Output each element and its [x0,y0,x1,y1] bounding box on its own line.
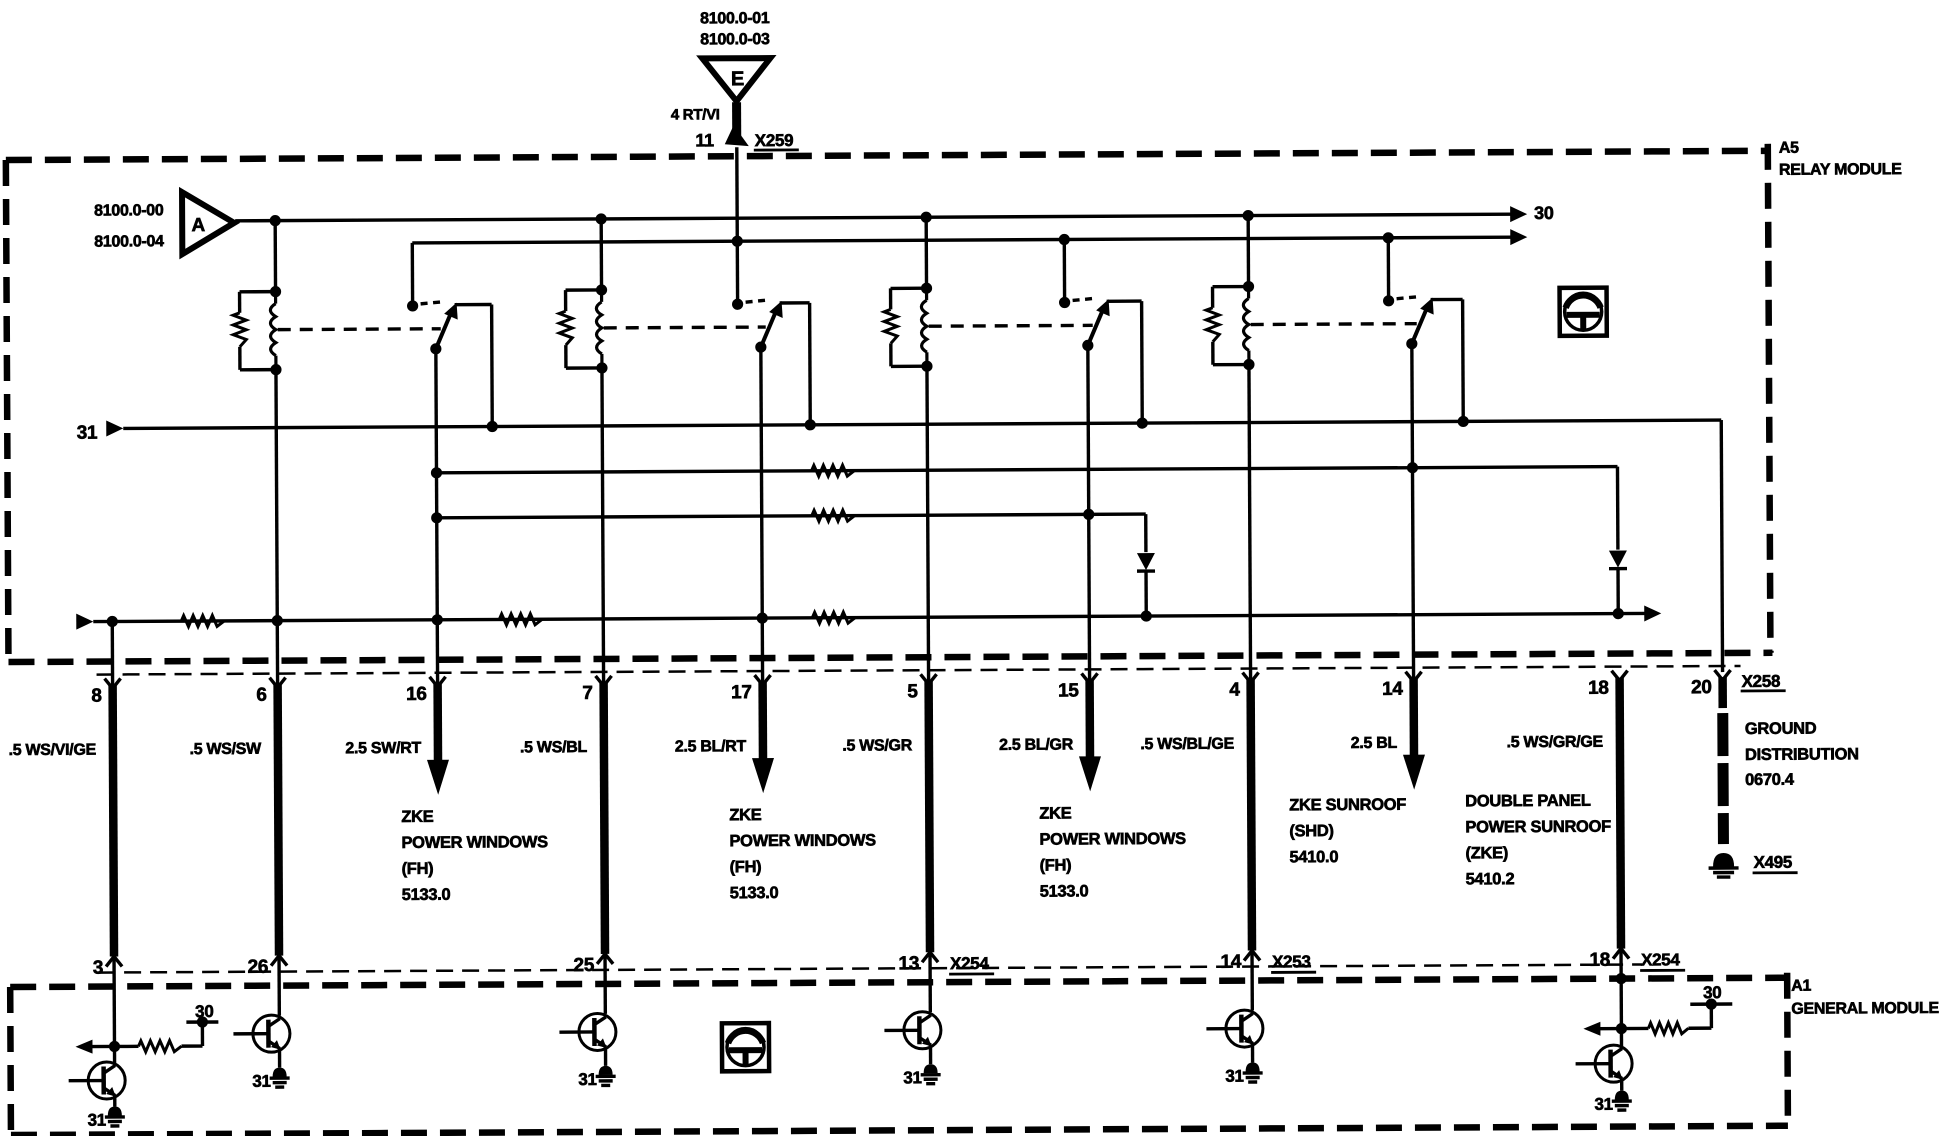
label pin 18 [1588,678,1609,699]
svg-text:2.5 SW/RT: 2.5 SW/RT [345,740,421,757]
relay switch S4 [1383,295,1465,680]
transistor T5 [1206,1010,1263,1047]
label GROUND [1745,720,1817,738]
connector pin 25 (A1, fork symbol) [597,954,613,964]
resistor R-A on line A [811,465,854,476]
svg-text:0670.4: 0670.4 [1745,771,1795,789]
svg-text:DOUBLE PANEL: DOUBLE PANEL [1465,792,1591,811]
harness wire at x=603 (to general module) [604,683,605,954]
ground X495 [1709,853,1739,877]
stub feed bus to switch S4 contact [1387,238,1391,301]
general module A1 dashed border [10,973,1788,1135]
label connector X253 [1271,952,1316,972]
svg-text:.5 WS/SW: .5 WS/SW [190,741,263,758]
ground 31 (T5) [1243,1062,1263,1082]
svg-text:GENERAL MODULE: GENERAL MODULE [1791,1000,1939,1018]
harness wire stub with arrow at x=1413 [1403,679,1426,790]
junction bus31/S1 output [487,421,498,432]
svg-text:POWER WINDOWS: POWER WINDOWS [401,833,548,852]
svg-text:(ZKE): (ZKE) [1465,844,1508,862]
svg-text:30: 30 [1703,983,1721,1002]
svg-text:2.5 BL/RT: 2.5 BL/RT [675,738,747,755]
connector pin 14 (A5, fork symbol) [1406,672,1422,682]
dashed actuation link relay K1 to switch S1 [278,327,441,331]
wire line A drop to diode D2 [1616,467,1620,550]
label wire gauge 2.5 SW/RT [345,740,421,757]
connector pin 7 (A5, fork symbol) [596,676,612,686]
svg-text:31: 31 [903,1068,921,1087]
svg-text:RELAY MODULE: RELAY MODULE [1779,161,1902,179]
svg-text:3: 3 [93,958,103,979]
rail 30 stub (T6) [1690,998,1732,1009]
junction bus31/S4 output [1458,416,1469,427]
junction bus30/relay K3 [921,212,932,223]
label pin 8 [91,686,101,707]
svg-text:E: E [731,68,744,90]
label wire gauge 2.5 BL/GR [999,736,1074,753]
wire feed bus from X259 [412,237,1511,243]
label connector X254 [1640,950,1685,970]
junction bus31/S3 output [1137,417,1148,428]
svg-text:8100.0-03: 8100.0-03 [700,31,770,48]
svg-text:14: 14 [1220,952,1241,973]
svg-text:X259: X259 [755,131,794,150]
connector pin 17 (A5, fork symbol) [755,675,771,685]
svg-text:X495: X495 [1754,853,1793,872]
label destination ZKE sunroof (pin 14) [1289,796,1406,867]
svg-text:.5 WS/GR/GE: .5 WS/GR/GE [1507,734,1604,752]
arrow (signal out, pin3 node) [75,1039,114,1053]
connector strip X (relay module, thin dashed) [97,666,1741,675]
svg-text:25: 25 [573,955,594,976]
label 0670.4 [1745,771,1795,789]
transistor T3 [559,1013,616,1050]
wire to 30 rail stub (T1) [201,1022,205,1046]
label connector X254 [949,954,994,974]
label pin 3 (A1) [93,958,103,979]
wire bus 31 [123,420,1721,428]
svg-text:5: 5 [907,681,918,702]
label pin 4 [1229,680,1240,701]
junction line C / S1 wire [432,614,443,625]
svg-text:.5 WS/GR: .5 WS/GR [842,737,912,754]
label pin 26 (A1) [247,957,268,978]
svg-text:4 RT/VI: 4 RT/VI [671,106,720,123]
label pin 5 [907,681,918,702]
connector pin 8 (A5, fork symbol) [105,678,121,688]
connector pin 3 (A1, fork symbol) [106,956,122,966]
connector pin 5 (A5, fork symbol) [921,674,937,684]
wire pin3 to transistor T1 [113,1046,116,1065]
diode D1 [1137,553,1155,616]
relay switch S2 [732,298,812,683]
label 30 (T1) [195,1002,213,1021]
connector pin 15 (A5, fork symbol) [1082,673,1098,683]
label pin 6 [256,685,266,706]
stub feed bus to switch S1 contact [411,243,415,306]
junction pin18 at module border [1616,973,1627,984]
wire to 30 rail stub (T6) [1710,1004,1714,1028]
label pin 13 (A1) [898,953,919,974]
label X495 [1753,853,1798,873]
label 30 (T6) [1703,983,1721,1002]
svg-text:.5 WS/VI/GE: .5 WS/VI/GE [9,742,97,759]
resistor R-C1 on line C [181,615,224,626]
svg-text:X254: X254 [1641,950,1680,969]
svg-text:.5 WS/BL: .5 WS/BL [520,739,588,756]
label wire gauge .5 WS/GR [842,737,912,754]
label 31 (T4) [903,1068,921,1087]
svg-text:5133.0: 5133.0 [1040,882,1089,900]
arrow line C (left end) [76,614,93,630]
svg-text:31: 31 [77,423,98,444]
transistor T6 [1576,1045,1633,1082]
svg-text:18: 18 [1589,950,1610,971]
label A1 [1791,978,1811,995]
label pin 7 [582,683,592,704]
label pin 20 [1691,677,1712,698]
wire pin 25 into general module [603,956,607,1014]
label wire gauge .5 WS/VI/GE [9,742,97,759]
wire bus 30 [275,214,1511,220]
svg-text:11: 11 [695,130,714,150]
label wire gauge .5 WS/SW [190,741,263,758]
label wire gauge .5 WS/GR/GE [1507,734,1604,752]
svg-text:8: 8 [91,686,101,707]
connector pin 16 (A5, fork symbol) [430,677,446,687]
arrow terminal 31 (line start) [106,420,123,436]
connector pin 26 (A1, fork symbol) [271,956,287,966]
svg-text:5133.0: 5133.0 [730,884,779,902]
junction feed bus / S3 stub [1059,234,1070,245]
label RELAY MODULE [1779,161,1902,179]
harness wire pin 20 (dashed, ground distribution) [1718,677,1727,844]
wire T5 emitter to ground [1251,1044,1254,1063]
transistor T1 [69,1062,126,1099]
junction feed bus / X259 wire [732,236,743,247]
svg-text:13: 13 [898,953,919,974]
svg-text:31: 31 [252,1072,270,1091]
svg-text:6: 6 [256,685,266,706]
label pin 11 [695,130,714,150]
svg-text:A5: A5 [1779,140,1799,157]
svg-text:ZKE: ZKE [401,808,433,826]
thick wire 4 RT/VI below triangle E [732,102,741,141]
wire T2 emitter to ground [278,1049,281,1068]
svg-text:8100.0-04: 8100.0-04 [94,233,164,250]
ground 31 (T2) [270,1068,290,1088]
svg-text:(FH): (FH) [1040,856,1072,874]
svg-text:20: 20 [1691,677,1712,698]
wire line B [437,514,1146,518]
svg-text:15: 15 [1058,680,1079,701]
svg-text:POWER SUNROOF: POWER SUNROOF [1465,818,1611,837]
svg-text:A1: A1 [1791,978,1811,995]
svg-text:(SHD): (SHD) [1289,822,1333,840]
wire pin 14 into general module [1250,953,1254,1011]
label wire gauge .5 WS/BL [520,739,588,756]
svg-text:5410.2: 5410.2 [1466,870,1515,888]
label pin 16 [406,684,427,705]
junction line B start at S1 wire [431,512,442,523]
svg-text:31: 31 [578,1070,596,1089]
ground 31 (T3) [596,1066,616,1086]
harness wire at x=1250 (to general module) [1251,680,1252,951]
wire pin 8 drop [111,621,115,686]
label A5 [1779,140,1799,157]
svg-text:ZKE: ZKE [1039,804,1071,822]
label 31 (bus) [77,423,98,444]
steering-wheel icon (general module) [722,1023,769,1071]
label GENERAL MODULE [1791,1000,1939,1018]
harness wire at x=928 (to general module) [929,681,930,952]
label DISTRIBUTION [1745,745,1859,764]
svg-text:31: 31 [88,1111,106,1130]
label 30 (bus) [1534,203,1554,223]
arrow terminal 30 [1510,206,1527,222]
wire line A [436,467,1617,473]
svg-text:X254: X254 [950,954,989,973]
harness wire pin 18 to general module [1620,678,1621,949]
diode D2 [1609,551,1627,614]
wire line C [93,613,1645,621]
connector strip (general module, thin dashed) [98,964,1642,972]
harness wire stub with arrow at x=437 [427,684,450,795]
resistor R-C3 on line C [812,612,855,623]
junction line C / pin8 drop [107,616,118,627]
connector pin 6 (A5, fork symbol) [270,678,286,688]
relay K2 (coil with parallel resistor) [559,219,610,684]
junction line A start at S1 wire [431,467,442,478]
junction bus30/relay K1 [270,215,281,226]
junction bus31/S2 output [805,419,816,430]
transistor T4 [884,1012,941,1049]
wire from triangle A to bus 30 [235,219,275,223]
wire T1 emitter to ground [113,1095,116,1106]
harness wire stub with arrow at x=1089 [1079,680,1102,791]
wire bus 31 drop to pin 20 [1721,420,1722,672]
svg-text:18: 18 [1588,678,1609,699]
svg-text:A: A [191,215,205,236]
junction line C / pin18 wire [1613,608,1624,619]
arrow line C (right end) [1644,605,1661,621]
junction bus30/relay K4 [1243,210,1254,221]
svg-text:31: 31 [1225,1067,1243,1086]
harness wire at x=277 (to general module) [278,685,279,956]
relay K3 (coil with parallel resistor) [884,217,935,682]
connector pin 4 (A5, fork symbol) [1243,672,1259,682]
svg-text:DISTRIBUTION: DISTRIBUTION [1745,745,1859,764]
label destination ZKE power windows (pin 15) [1039,804,1186,901]
stub feed bus to switch S3 contact [1063,240,1067,303]
label pin 17 [731,682,752,703]
svg-text:ZKE: ZKE [729,806,761,824]
label 31 (T3) [578,1070,596,1089]
junction line A / S4 wire [1407,462,1418,473]
connector X259 arrow [725,125,749,146]
label 4 RT/VI [671,106,720,123]
junction line C / S2 wire [757,612,768,623]
svg-text:14: 14 [1382,679,1403,700]
dashed actuation link relay K4 to switch S4 [1251,322,1417,326]
dashed actuation link relay K3 to switch S3 [929,324,1093,328]
svg-text:ZKE SUNROOF: ZKE SUNROOF [1289,796,1406,815]
label X258 [1741,672,1786,691]
junction line C / diode D1 [1141,610,1152,621]
arrow feed bus end [1510,229,1527,245]
svg-text:(FH): (FH) [402,860,434,878]
label 31 (T2) [252,1072,270,1091]
svg-text:(FH): (FH) [730,858,762,876]
power source triangle E [702,58,770,101]
label wire gauge .5 WS/BL/GE [1140,736,1234,753]
steering-wheel icon (relay module) [1560,288,1607,336]
connector pin 14 (A1, fork symbol) [1244,950,1260,960]
relay switch S3 [1059,296,1144,681]
svg-text:26: 26 [247,957,268,978]
harness wire at x=112 (to general module) [113,685,114,956]
wire pin 3 into general module [112,958,116,1046]
svg-text:X258: X258 [1742,672,1781,691]
label 31 (T6) [1594,1095,1612,1114]
connector pin 13 (A1, fork symbol) [922,952,938,962]
label pin 18 (A1) [1589,950,1610,971]
svg-text:8100.0-01: 8100.0-01 [700,10,770,27]
label X259 [754,131,799,150]
rail 30 stub (T1) [186,1016,218,1027]
label pin 25 (A1) [573,955,594,976]
svg-text:2.5 BL: 2.5 BL [1351,735,1398,752]
connector pin 20 (A5, fork symbol) [1715,670,1731,680]
label pin 15 [1058,680,1079,701]
svg-text:4: 4 [1229,680,1240,701]
junction pin18 node [1616,1023,1627,1034]
label destination ZKE power windows (pin 17) [729,805,876,902]
wire T6 emitter to ground [1620,1079,1623,1091]
junction feed bus / S4 stub [1383,232,1394,243]
wire pin 18 into general module [1619,951,1623,979]
connector pin 18 (A5, fork symbol) [1612,671,1628,681]
svg-text:POWER WINDOWS: POWER WINDOWS [729,831,876,850]
wire T4 emitter to ground [929,1045,932,1064]
wire line B drop to diode D1 [1144,514,1148,552]
wire pin 26 into general module [277,958,281,1016]
svg-text:30: 30 [195,1002,213,1021]
junction bus30/relay K2 [596,213,607,224]
label 8100.0-00 [94,202,164,219]
dashed actuation link relay K2 to switch S2 [604,325,766,329]
label pin 14 (A1) [1220,952,1241,973]
relay K4 (coil with parallel resistor) [1206,216,1257,681]
label destination double panel power sunroof [1465,792,1611,889]
resistor R-C2 on line C [499,614,542,625]
svg-text:7: 7 [582,683,592,704]
resistor R-B on line B [812,510,855,521]
label wire gauge 2.5 BL [1351,735,1398,752]
svg-text:.5 WS/BL/GE: .5 WS/BL/GE [1140,736,1234,753]
relay K1 (coil with parallel resistor) [233,221,284,686]
label 8100.0-01 [700,10,770,27]
label wire gauge 2.5 BL/RT [675,738,747,755]
svg-text:5410.0: 5410.0 [1289,848,1338,866]
resistor R-T1 [114,1041,202,1052]
relay switch S1 [407,300,494,685]
relay module A5 dashed border [6,144,1773,662]
harness wire stub with arrow at x=762 [752,682,775,793]
label destination ZKE power windows (pin 16) [401,807,548,904]
junction pin3 node [109,1041,120,1052]
ground 31 (T1) [105,1106,125,1126]
wire X259 to switch S2 contact [735,147,739,304]
svg-text:2.5 BL/GR: 2.5 BL/GR [999,736,1074,753]
label 31 (T5) [1225,1067,1243,1086]
svg-text:30: 30 [1534,203,1554,223]
junction line C / relay K1 wire [272,615,283,626]
svg-text:X253: X253 [1272,952,1311,971]
ground 31 (T4) [921,1064,941,1084]
connector pin 18 (A1, fork symbol) [1613,949,1629,959]
label 8100.0-04 [94,233,164,250]
wire pin18 down [1619,979,1623,1049]
arrow (signal out, pin18 node) [1583,1022,1621,1036]
wire T3 emitter to ground [604,1047,607,1066]
ground 31 (T6) [1612,1091,1632,1111]
svg-text:17: 17 [731,682,752,703]
svg-text:GROUND: GROUND [1745,720,1817,738]
power source triangle A [182,192,234,254]
svg-text:8100.0-00: 8100.0-00 [94,202,164,219]
label pin 14 [1382,679,1403,700]
wire pin 13 into general module [928,954,932,1012]
svg-text:31: 31 [1594,1095,1612,1114]
svg-text:5133.0: 5133.0 [402,886,451,904]
label 8100.0-03 [700,31,770,48]
label 31 (T1) [88,1111,106,1130]
resistor R-T6 [1621,1023,1711,1034]
transistor T2 [233,1015,290,1052]
junction line B / S3 wire [1083,509,1094,520]
svg-text:POWER WINDOWS: POWER WINDOWS [1039,830,1186,849]
svg-text:16: 16 [406,684,427,705]
